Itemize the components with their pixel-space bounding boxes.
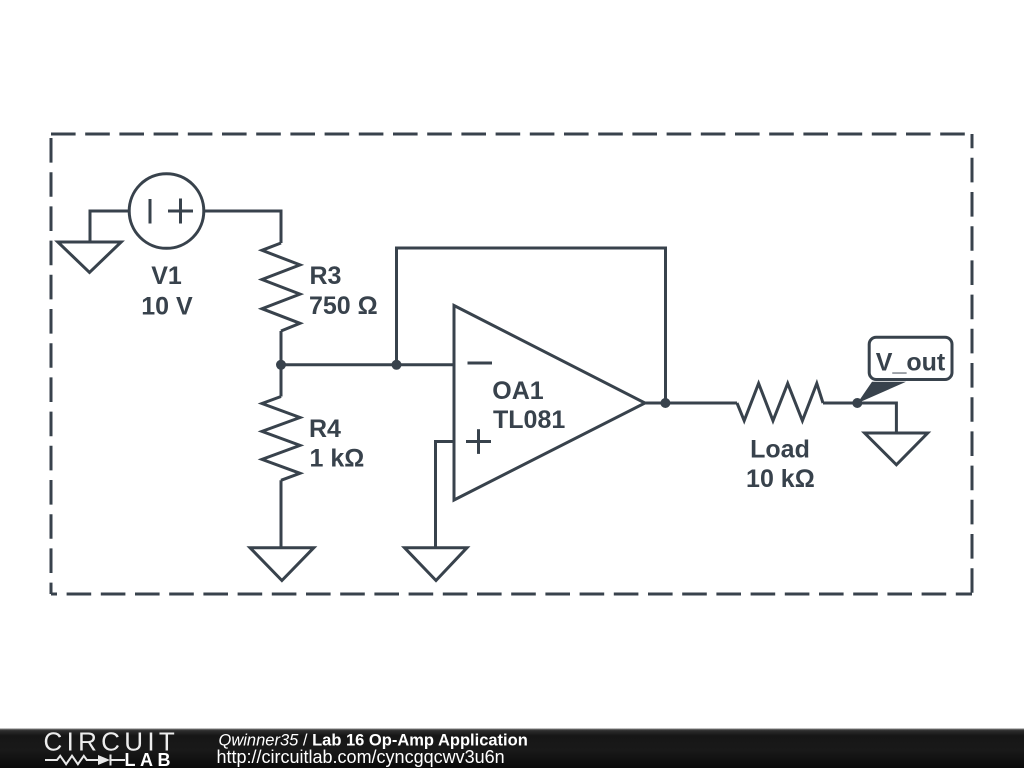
ground (left of V1) — [58, 242, 121, 272]
resistor R3 — [262, 243, 300, 331]
wire feedback from node B up and over to output — [397, 248, 666, 403]
wire R3 bottom to node A — [280, 331, 283, 365]
voltage source V1 — [129, 174, 204, 249]
wire node A to R4 top — [280, 365, 283, 397]
wire R4 bottom lead to ground — [280, 480, 283, 547]
footer bar — [0, 729, 1024, 768]
dashed enclosure border — [51, 134, 972, 594]
wire node A to op-amp inverting input — [281, 363, 454, 366]
svg-text:Load: Load — [750, 436, 810, 464]
net flag V_out pointer wedge — [857, 382, 906, 403]
resistor R4 — [262, 397, 300, 481]
wire op-amp output to Load — [645, 402, 737, 405]
wire op-amp non-inverting input to ground — [436, 442, 455, 548]
svg-text:1 kΩ: 1 kΩ — [310, 445, 365, 473]
svg-text:R4: R4 — [309, 415, 341, 443]
wire V1 left lead to ground — [90, 211, 130, 242]
svg-text:R3: R3 — [310, 262, 342, 290]
wire Load to V_out node and down to ground — [823, 403, 896, 433]
svg-text:10 kΩ: 10 kΩ — [746, 465, 815, 493]
svg-text:750 Ω: 750 Ω — [309, 292, 378, 320]
net flag V_out box — [869, 337, 952, 379]
svg-text:http://circuitlab.com/cyncgqcw: http://circuitlab.com/cyncgqcwv3u6n — [217, 747, 505, 767]
ground (output) — [865, 433, 928, 465]
svg-text:10 V: 10 V — [141, 292, 193, 320]
svg-text:V1: V1 — [151, 262, 182, 290]
svg-text:OA1: OA1 — [492, 377, 544, 405]
op-amp OA1 — [454, 306, 645, 501]
wire V1 right lead to R3 top — [203, 211, 281, 243]
output node junction dot — [660, 398, 670, 408]
CircuitLab logo resistor-diode glyph — [45, 755, 125, 766]
node B junction dot — [392, 360, 402, 370]
ground (below R4) — [250, 548, 314, 581]
svg-text:TL081: TL081 — [493, 406, 565, 434]
ground (below op-amp + input) — [405, 548, 468, 581]
node A junction dot — [276, 360, 286, 370]
svg-text:LAB: LAB — [125, 750, 176, 768]
resistor Load — [737, 383, 823, 420]
V_out node junction dot — [852, 398, 862, 408]
svg-text:V_out: V_out — [876, 349, 946, 377]
